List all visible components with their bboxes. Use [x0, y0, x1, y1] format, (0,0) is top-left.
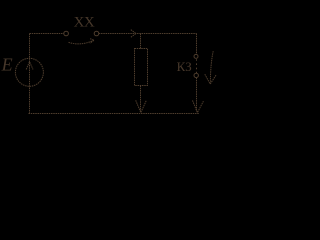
svg-text:КЗ: КЗ [177, 59, 192, 74]
wire: right branch upper lead [196, 34, 198, 55]
wire: bottom [29, 113, 200, 115]
switch KZ dashed blade [196, 59, 198, 73]
EMF source E circle [15, 58, 43, 86]
wire: top left segment [30, 33, 64, 35]
switch XX right terminal [94, 31, 99, 36]
wire: top right segment [99, 33, 197, 35]
current direction arrow on top wire [131, 30, 136, 38]
EMF arrow inside source [26, 62, 33, 70]
arrow down at right branch [193, 100, 204, 112]
switch KZ lower terminal [194, 73, 198, 77]
wire: right branch lower lead [196, 78, 198, 111]
wire: middle branch lower lead [140, 86, 142, 112]
wire: left vertical [29, 34, 31, 114]
switch KZ closing arrow [205, 51, 216, 84]
switch XX left terminal [64, 31, 69, 36]
wire: middle branch upper lead [140, 34, 142, 49]
switch KZ upper terminal [194, 54, 198, 58]
svg-text:E: E [1, 55, 13, 75]
arrow down at middle branch [136, 100, 147, 112]
switch XX closing arc arrow [69, 39, 95, 44]
resistor (load) [135, 49, 148, 86]
svg-text:ХХ: ХХ [74, 14, 95, 30]
